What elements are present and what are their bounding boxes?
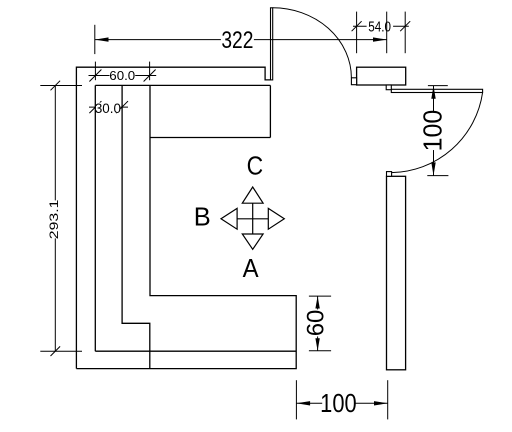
label A: [243, 254, 259, 283]
svg-text:A: A: [243, 254, 259, 283]
door swing arc right: [392, 92, 483, 172]
svg-text:60: 60: [302, 310, 329, 337]
wall inner left line: [94, 85, 96, 351]
door leaf right (horizontal): [391, 89, 482, 92]
wall segment bottom-right: [387, 176, 406, 369]
dim text 30.0: [95, 101, 121, 116]
svg-text:100: 100: [419, 110, 448, 152]
wall segment top-right: [357, 67, 406, 85]
dimension 293.1: [40, 81, 82, 356]
label C: [247, 152, 264, 181]
door jamb block right-lower: [387, 172, 392, 177]
dim text 54.0: [367, 12, 394, 54]
svg-text:C: C: [247, 152, 264, 181]
door jamb block right-upper: [386, 85, 391, 90]
dimension 100 bottom: [296, 380, 387, 419]
dim text 322: [221, 26, 254, 54]
svg-text:293.1: 293.1: [47, 199, 61, 239]
wall mid vertical with step: [122, 85, 150, 368]
dimension 54.0: [352, 12, 411, 54]
wall outer bottom and step up to top: [76, 85, 296, 368]
wall inner bottom line: [95, 350, 296, 352]
wall inner top line: [95, 84, 270, 86]
dim text 100 (bottom): [320, 389, 356, 418]
compass cross arrows: [237, 203, 268, 234]
dimension 322: [95, 25, 387, 54]
label B: [194, 203, 211, 231]
svg-text:100: 100: [320, 389, 356, 418]
arrow up: [242, 187, 263, 203]
svg-text:322: 322: [221, 26, 253, 54]
arrow left: [221, 208, 237, 229]
dim text 60: [302, 309, 329, 336]
dim text 60.0: [109, 68, 135, 83]
dimension 60 middle: [309, 296, 331, 351]
cabinet bottom: [150, 137, 271, 139]
dimension 30.0: [89, 101, 128, 113]
dim text 100 (right): [419, 110, 448, 152]
arrow right: [268, 208, 284, 229]
door swing arc top: [273, 8, 352, 78]
svg-text:30.0: 30.0: [95, 101, 121, 116]
dimension 100 right: [427, 86, 448, 176]
door jamb block top: [351, 78, 356, 85]
dim text 293.1: [47, 199, 61, 239]
door leaf top (vertical): [271, 8, 273, 80]
wall outer left+top with door notch: [76, 67, 270, 368]
cabinet right edge: [269, 85, 271, 137]
svg-text:B: B: [194, 203, 211, 231]
svg-text:60.0: 60.0: [109, 68, 135, 83]
arrow down: [242, 234, 263, 249]
svg-text:54.0: 54.0: [368, 18, 391, 35]
dimension 60.0: [89, 62, 157, 82]
